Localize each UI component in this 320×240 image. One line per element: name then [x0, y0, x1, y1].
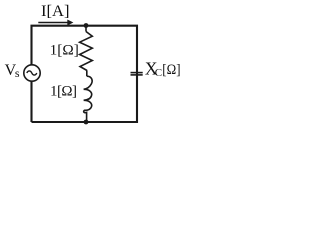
svg-text:I[A]: I[A] [41, 3, 70, 20]
svg-text:Vs: Vs [5, 62, 20, 80]
svg-text:1[Ω]: 1[Ω] [50, 84, 77, 100]
AC source sine wave [27, 71, 37, 75]
svg-text:1[Ω]: 1[Ω] [50, 43, 79, 59]
capacitor Xc plate top [131, 72, 143, 74]
svg-text:C: C [155, 67, 162, 79]
junction node bottom [84, 120, 89, 125]
junction node top [84, 23, 89, 28]
svg-text:[Ω]: [Ω] [162, 62, 180, 78]
wire resistor-inductor stub [86, 70, 88, 76]
inductor L 1 ohm [84, 76, 93, 122]
resistor R 1 ohm [80, 32, 93, 71]
wire middle branch top stub [85, 26, 87, 32]
AC voltage source Vs circle [24, 65, 40, 81]
current arrow I [38, 22, 69, 24]
wire top [32, 26, 138, 122]
capacitor Xc plate bottom [131, 74, 143, 76]
